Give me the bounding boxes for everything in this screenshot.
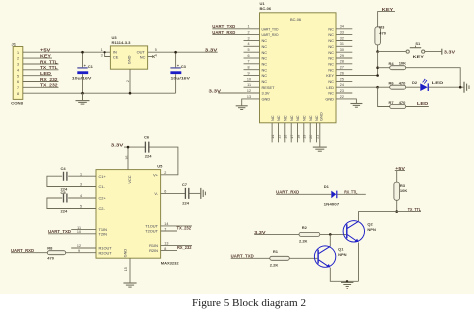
- svg-text:NC: NC: [262, 61, 268, 66]
- wire U1 bottom GND pin down: [319, 123, 321, 147]
- svg-text:GND: GND: [127, 55, 132, 64]
- svg-text:C6: C6: [144, 135, 150, 140]
- svg-text:NC: NC: [283, 115, 288, 121]
- svg-text:32: 32: [340, 36, 344, 40]
- svg-text:33: 33: [340, 31, 344, 35]
- wire LED node down to R7: [378, 87, 390, 106]
- svg-text:NPN: NPN: [338, 252, 347, 257]
- ground transistors: [341, 282, 353, 288]
- wire 3.3V to R2: [254, 230, 299, 235]
- svg-text:34: 34: [340, 25, 344, 29]
- U1 left pin numbers: [247, 25, 251, 99]
- svg-text:RX_TTL: RX_TTL: [344, 189, 358, 194]
- net label KEY top right: [378, 7, 395, 27]
- svg-text:23: 23: [340, 89, 344, 93]
- svg-text:3.3V: 3.3V: [205, 47, 218, 52]
- svg-text:2: 2: [17, 57, 19, 61]
- U5 pin numbers: [77, 156, 169, 272]
- svg-text:C2-: C2-: [99, 206, 106, 211]
- svg-text:2: 2: [247, 31, 249, 35]
- ground sideways at C7: [201, 188, 206, 199]
- U1 bottom inside rotated NC / GND names: [270, 112, 324, 121]
- svg-text:GND: GND: [319, 112, 324, 121]
- svg-text:RX_232: RX_232: [177, 245, 192, 250]
- svg-text:NC: NC: [295, 115, 300, 121]
- transistor Q1 NPN: [314, 246, 346, 268]
- svg-text:NC: NC: [328, 26, 334, 31]
- junction U3 GND at rail: [129, 92, 132, 95]
- svg-text:RX_232: RX_232: [40, 77, 58, 82]
- svg-text:R3: R3: [400, 183, 406, 188]
- U1 right NC stubs: [336, 29, 352, 93]
- svg-text:NC: NC: [262, 50, 268, 55]
- svg-text:3.3V: 3.3V: [262, 91, 270, 96]
- svg-text:24: 24: [340, 83, 344, 87]
- svg-text:R2IN: R2IN: [149, 248, 158, 253]
- svg-text:MAX3232: MAX3232: [161, 261, 180, 266]
- svg-text:NC: NC: [328, 56, 334, 61]
- U1 bottom rotated pin numbers 14-21: [271, 135, 319, 139]
- svg-text:C1-: C1-: [99, 184, 106, 189]
- svg-text:LED: LED: [40, 71, 51, 76]
- svg-text:T2OUT: T2OUT: [145, 229, 158, 234]
- wire TX_TTL label: [397, 207, 422, 212]
- wire node to Q2 collector: [359, 212, 397, 221]
- junction C1 top: [81, 51, 84, 54]
- svg-text:1: 1: [101, 48, 103, 52]
- U5 T2OUT stub pin7: [161, 230, 177, 232]
- junction emitter rail: [346, 280, 348, 282]
- svg-text:J1: J1: [12, 42, 17, 47]
- svg-text:+5V: +5V: [395, 166, 405, 171]
- svg-text:16: 16: [284, 135, 288, 139]
- wire U5 T1OUT to TX_232: [161, 226, 192, 231]
- capacitor C5 224 loop pins 4-5: [47, 190, 96, 213]
- svg-text:RX_TTL: RX_TTL: [40, 59, 58, 64]
- wire net TX_TTL from J1 pin4: [23, 65, 59, 70]
- svg-text:C1: C1: [88, 64, 94, 69]
- wire D2 to ground node: [429, 86, 464, 88]
- wire net RX_232 from J1 pin6: [23, 77, 59, 82]
- ground U5: [123, 283, 136, 287]
- U5 inside pin names: [99, 172, 159, 257]
- connector J1 CON8: [11, 42, 24, 106]
- svg-text:22: 22: [340, 95, 344, 99]
- svg-text:TX_TTL: TX_TTL: [408, 207, 422, 212]
- svg-text:21: 21: [315, 135, 319, 139]
- svg-text:30: 30: [340, 48, 344, 52]
- svg-text:R2OUT: R2OUT: [99, 250, 113, 255]
- junction KEY pin row: [376, 74, 379, 77]
- svg-text:7: 7: [17, 86, 19, 90]
- svg-text:224: 224: [61, 208, 68, 213]
- svg-text:UART_TXD: UART_TXD: [212, 24, 235, 29]
- svg-text:NC: NC: [276, 115, 281, 121]
- svg-text:NC: NC: [262, 79, 268, 84]
- svg-text:NC: NC: [262, 73, 268, 78]
- svg-text:KEY: KEY: [413, 54, 425, 59]
- wire net KEY from J1 pin2: [23, 54, 52, 59]
- svg-text:470: 470: [379, 30, 386, 35]
- U1 right inside pin names: [325, 26, 334, 101]
- svg-text:TX_TTL: TX_TTL: [40, 65, 58, 70]
- svg-text:10K: 10K: [399, 61, 406, 66]
- svg-text:R7: R7: [389, 100, 395, 105]
- junction TX_TTL node: [395, 210, 398, 213]
- svg-text:NC: NC: [302, 115, 307, 121]
- svg-text:6: 6: [17, 80, 19, 84]
- svg-text:NPN: NPN: [367, 227, 376, 232]
- svg-text:7: 7: [247, 60, 249, 64]
- svg-text:TX_232: TX_232: [40, 83, 58, 88]
- capacitor C4 224 loop pins 1-3: [47, 166, 96, 192]
- svg-text:10K: 10K: [400, 188, 407, 193]
- wire D1 to RX_TTL: [337, 189, 365, 194]
- wire UART_TXD to U1 pin1: [212, 24, 259, 29]
- svg-text:NC: NC: [262, 44, 268, 49]
- U5 R2IN stub pin8: [161, 250, 177, 252]
- svg-text:C4: C4: [61, 166, 67, 171]
- capacitor C3 10u/16V: [170, 52, 190, 93]
- capacitor C6 224: [144, 135, 152, 159]
- svg-text:5: 5: [155, 48, 157, 52]
- U5 R1OUT stub pin12: [71, 247, 96, 249]
- svg-text:VCC: VCC: [127, 175, 132, 183]
- svg-text:NC: NC: [262, 56, 268, 61]
- svg-text:26: 26: [340, 71, 344, 75]
- U1 left inside pin names: [262, 26, 279, 101]
- svg-text:2.2K: 2.2K: [299, 238, 308, 243]
- svg-text:R8: R8: [47, 246, 53, 251]
- svg-text:NC: NC: [262, 67, 268, 72]
- svg-text:UART_TXD: UART_TXD: [231, 254, 254, 259]
- svg-text:1N4007: 1N4007: [324, 201, 340, 206]
- svg-text:NC: NC: [328, 44, 334, 49]
- wire +5V from J1 pin1 to U3 IN: [23, 48, 111, 53]
- U1 bottom NC pins: [272, 123, 316, 143]
- wire 3.3V to U5 VCC and C6: [111, 142, 178, 174]
- U1 right pin numbers: [340, 25, 344, 99]
- svg-text:470: 470: [399, 81, 406, 86]
- wire R6 to D2: [406, 86, 421, 88]
- svg-text:R1: R1: [273, 249, 279, 254]
- svg-text:C5: C5: [61, 190, 67, 195]
- svg-text:11: 11: [247, 83, 251, 87]
- svg-text:25: 25: [340, 77, 344, 81]
- U5 T1IN stub pin11: [71, 229, 96, 231]
- svg-text:224: 224: [145, 153, 152, 158]
- svg-text:9: 9: [247, 71, 249, 75]
- junction D2 cathode node: [459, 86, 462, 89]
- svg-text:3.3V: 3.3V: [254, 230, 266, 235]
- svg-text:R2: R2: [302, 225, 308, 230]
- svg-text:8: 8: [247, 66, 249, 70]
- svg-text:UART_RXD: UART_RXD: [11, 248, 34, 253]
- svg-text:19: 19: [303, 135, 307, 139]
- junction R4 tap: [376, 66, 379, 69]
- wire U5 GND pin15 down: [129, 258, 131, 283]
- svg-text:27: 27: [340, 66, 344, 70]
- wire Q1 emitter down: [330, 268, 358, 281]
- resistor R8 470: [47, 246, 65, 261]
- svg-text:GND: GND: [325, 97, 334, 102]
- junction C1 bottom / ground rail: [81, 92, 84, 95]
- wire UART_TXD to U5 T2IN: [48, 229, 96, 234]
- junction Q1 collector / Q2 base node: [329, 233, 332, 236]
- junction LED pin row at 377.6: [376, 86, 379, 89]
- wire node down to Q1 collector: [329, 234, 331, 246]
- svg-text:5: 5: [17, 74, 19, 78]
- svg-text:1: 1: [247, 25, 249, 29]
- svg-text:3: 3: [101, 53, 103, 57]
- svg-text:20: 20: [309, 135, 313, 139]
- svg-text:12: 12: [247, 89, 251, 93]
- transistor Q2 NPN: [343, 221, 376, 243]
- svg-text:S1: S1: [415, 41, 421, 46]
- svg-text:UART_TXD: UART_TXD: [48, 229, 71, 234]
- svg-text:470: 470: [47, 256, 54, 261]
- svg-text:RESET: RESET: [262, 85, 276, 90]
- capacitor C1 10u/16V: [72, 52, 94, 93]
- svg-text:31: 31: [340, 42, 344, 46]
- svg-text:U5: U5: [157, 163, 163, 168]
- switch S1 KEY: [406, 41, 425, 59]
- wire R1 to Q1 base: [289, 257, 317, 259]
- resistor R3 470 vertical: [375, 24, 387, 51]
- svg-text:10u/16V: 10u/16V: [171, 75, 191, 80]
- ground U1 bottom: [313, 147, 327, 151]
- wire UART_RXD to U1 pin2: [212, 30, 259, 35]
- svg-text:3.3V: 3.3V: [444, 49, 455, 54]
- wire U5 R1IN to RX_232: [161, 245, 193, 250]
- svg-text:Q1: Q1: [338, 246, 344, 251]
- resistor R3b 10K vertical: [394, 182, 407, 212]
- power port 3.3V: [442, 49, 456, 55]
- svg-text:T2IN: T2IN: [99, 232, 108, 237]
- wire UART_RXD through R8 to U5 R2OUT: [11, 248, 96, 253]
- svg-text:GND: GND: [262, 97, 271, 102]
- resistor R2 2.2K: [299, 225, 320, 243]
- svg-text:4: 4: [247, 42, 249, 46]
- svg-text:D2: D2: [412, 80, 418, 85]
- svg-text:15: 15: [124, 267, 128, 271]
- svg-text:Q2: Q2: [367, 221, 373, 226]
- wire R2 to node: [320, 233, 346, 235]
- U1 left NC stubs pins 3-11: [244, 41, 260, 88]
- svg-text:NC: NC: [328, 32, 334, 37]
- svg-text:29: 29: [340, 54, 344, 58]
- svg-text:GND: GND: [123, 249, 128, 258]
- wire net LED from J1 pin5: [23, 71, 52, 76]
- svg-text:6: 6: [247, 54, 249, 58]
- diode D1 1N4007: [324, 184, 340, 206]
- svg-text:NC: NC: [328, 38, 334, 43]
- wire R4 right down to LED node: [406, 68, 461, 88]
- svg-text:10: 10: [247, 77, 251, 81]
- junction C3 top: [174, 51, 177, 54]
- svg-text:BC-06: BC-06: [260, 6, 272, 11]
- svg-text:R3: R3: [379, 24, 385, 29]
- resistor R7 470: [389, 100, 407, 109]
- svg-text:NC: NC: [328, 50, 334, 55]
- wire U3 OUT to 3.3V: [148, 47, 218, 52]
- svg-text:NC: NC: [289, 115, 294, 121]
- svg-text:CE: CE: [113, 54, 119, 59]
- U5 VCC pin16 stem: [127, 147, 129, 170]
- svg-text:15: 15: [277, 135, 281, 139]
- junction R3 bottom: [376, 50, 379, 53]
- wire ground rail from J1 pin8: [23, 92, 176, 94]
- svg-text:28: 28: [340, 60, 344, 64]
- U3 NC stub pin4: [148, 55, 155, 58]
- resistor R1 2.2K: [270, 249, 290, 268]
- svg-text:BC-06: BC-06: [290, 17, 301, 22]
- svg-text:1: 1: [17, 51, 19, 55]
- svg-text:4: 4: [17, 68, 19, 72]
- svg-text:C2+: C2+: [99, 196, 107, 201]
- wire UART_RXD to D1: [276, 190, 331, 195]
- svg-text:NC: NC: [140, 54, 146, 59]
- svg-text:UART_RXD: UART_RXD: [262, 32, 279, 37]
- power +5V label: [395, 166, 405, 182]
- capacitor C7 224: [182, 182, 190, 206]
- wire KEY node down to pin26 row: [377, 52, 379, 76]
- svg-text:TX_232: TX_232: [177, 226, 192, 231]
- svg-text:2.2K: 2.2K: [270, 263, 279, 268]
- svg-text:NC: NC: [308, 115, 313, 121]
- svg-text:KEY: KEY: [382, 7, 394, 12]
- svg-text:LED: LED: [417, 101, 428, 106]
- svg-text:CON8: CON8: [11, 101, 24, 106]
- svg-text:224: 224: [182, 201, 189, 206]
- svg-text:KEY: KEY: [326, 73, 334, 78]
- svg-text:5: 5: [247, 48, 249, 52]
- svg-text:3: 3: [247, 36, 249, 40]
- bluetooth module U1 BC-06: [260, 1, 337, 123]
- wire U1 pin13 GND down: [242, 99, 260, 106]
- wire U1 pin22 GND down: [336, 99, 356, 103]
- svg-text:NC: NC: [328, 61, 334, 66]
- resistor R4 10K: [378, 61, 407, 70]
- svg-text:NC: NC: [328, 67, 334, 72]
- wire S1 to 3.3V power: [425, 51, 442, 53]
- resistor R6 470: [378, 81, 407, 90]
- wire Q2 emitter down: [358, 243, 360, 282]
- svg-text:+5V: +5V: [40, 48, 51, 53]
- ground U1 right: [350, 104, 362, 108]
- svg-text:C7: C7: [182, 182, 188, 187]
- svg-text:14: 14: [271, 135, 275, 139]
- svg-text:LED: LED: [432, 80, 444, 85]
- wire U5 V- to C7: [161, 192, 185, 194]
- svg-text:KEY: KEY: [40, 54, 51, 59]
- regulator U3 R1114-3.3: [101, 35, 157, 82]
- svg-text:UART_RXD: UART_RXD: [212, 30, 235, 35]
- svg-text:NC: NC: [328, 79, 334, 84]
- svg-text:D1: D1: [324, 184, 330, 189]
- svg-text:8: 8: [17, 92, 19, 96]
- svg-text:R4: R4: [389, 61, 395, 66]
- wire U1 LED pin24: [336, 86, 378, 88]
- svg-text:3: 3: [17, 63, 19, 67]
- svg-text:NC: NC: [262, 38, 268, 43]
- svg-text:UART_TXD: UART_TXD: [262, 26, 279, 31]
- svg-text:NC: NC: [270, 115, 275, 121]
- wire C7 to sideways ground: [189, 192, 200, 194]
- svg-text:470: 470: [399, 100, 406, 105]
- wire UART_TXD to R1: [231, 254, 270, 259]
- junction VCC tap: [127, 146, 130, 149]
- svg-text:NC: NC: [328, 91, 334, 96]
- svg-text:C3: C3: [181, 64, 187, 69]
- svg-text:3.3V: 3.3V: [209, 88, 222, 93]
- wire net TX_232 from J1 pin7: [23, 83, 59, 88]
- svg-text:18: 18: [296, 135, 300, 139]
- wire 3.3V to U1 pin12: [209, 88, 260, 93]
- wire U3 CE split: [105, 52, 111, 56]
- wire R7 to LED net label: [406, 101, 429, 106]
- svg-text:4: 4: [155, 54, 157, 58]
- svg-text:10u/16V: 10u/16V: [72, 75, 92, 80]
- svg-text:C1+: C1+: [99, 174, 107, 179]
- wire net RX_TTL from J1 pin3: [23, 59, 59, 64]
- svg-text:17: 17: [290, 135, 294, 139]
- LED D2: [412, 79, 443, 91]
- junction IN/CE split: [104, 51, 106, 53]
- svg-text:R1114-3.3: R1114-3.3: [112, 40, 132, 45]
- wire node to S1: [378, 51, 406, 53]
- svg-text:Figure 5 Block diagram 2: Figure 5 Block diagram 2: [192, 298, 306, 309]
- svg-text:R6: R6: [389, 81, 395, 86]
- svg-text:3.3V: 3.3V: [111, 142, 124, 147]
- ground sideways right edge: [464, 82, 469, 93]
- svg-text:V+: V+: [153, 172, 159, 177]
- svg-text:LED: LED: [326, 85, 334, 90]
- wire U3 GND down: [129, 69, 131, 93]
- svg-text:UART_RXD: UART_RXD: [276, 190, 299, 195]
- wire U1 KEY pin26: [336, 75, 378, 77]
- ground U1 left: [236, 106, 248, 110]
- ground under C1: [76, 93, 90, 104]
- chip U5 MAX3232: [96, 163, 179, 265]
- svg-text:13: 13: [247, 95, 251, 99]
